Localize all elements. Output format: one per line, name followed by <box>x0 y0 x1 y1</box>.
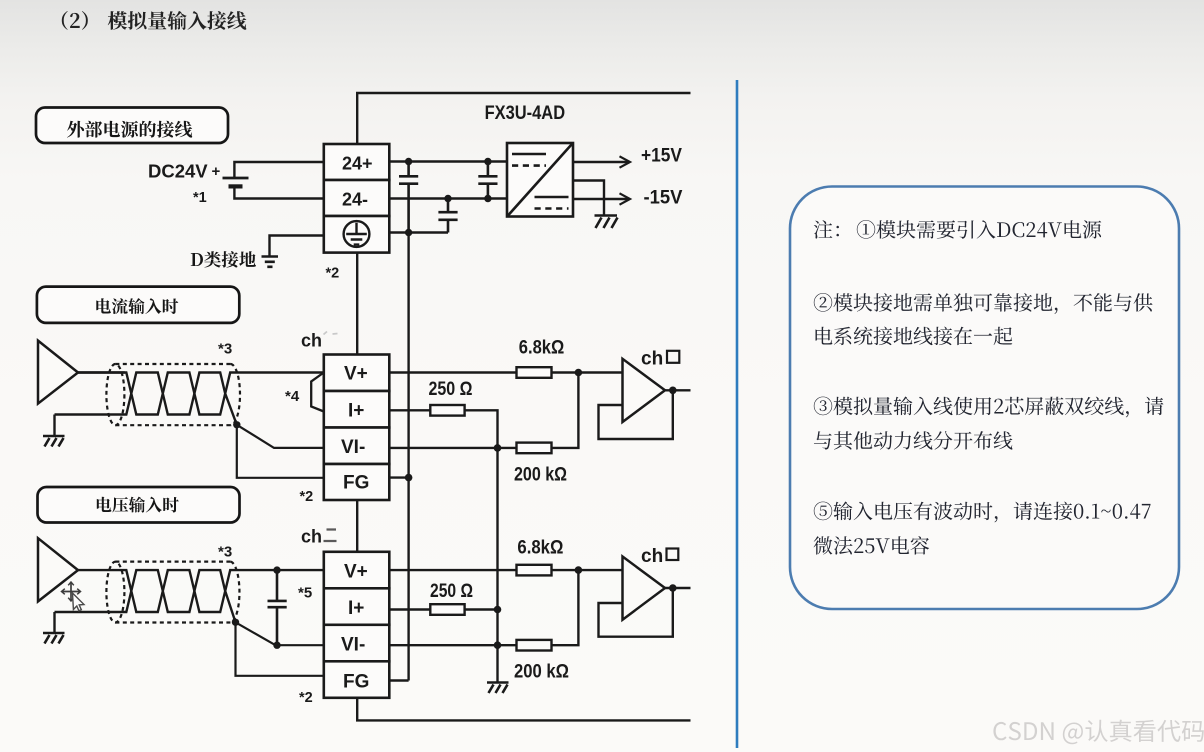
svg-text:250 Ω: 250 Ω <box>429 379 473 400</box>
wire FG ch2 to bottom rail <box>357 698 690 721</box>
node earth row/rail <box>405 229 412 236</box>
text DC24V + <box>148 102 683 282</box>
shield oval ch2 <box>106 562 239 623</box>
node R5/rail ch2 <box>494 606 502 614</box>
note line 6 <box>814 502 1151 523</box>
terminal V+ ch2 <box>324 552 390 589</box>
wire 24+ row to converter <box>389 160 507 162</box>
svg-text:*1: *1 <box>193 190 207 206</box>
title （2）模拟量输入接线 <box>62 11 88 30</box>
wire shield to FG ch1 <box>237 425 324 478</box>
wire pair B to ground ch2 <box>53 612 55 633</box>
wire R6 to node ch2 <box>552 570 579 645</box>
node C4/V+ ch2 <box>273 566 280 573</box>
shield oval ch1 <box>106 364 240 425</box>
wire -15V output <box>573 198 629 200</box>
chassis ground (sensor ch1) <box>43 436 65 447</box>
svg-text:*2: *2 <box>300 489 314 505</box>
note line 7 <box>814 536 930 555</box>
node 24-/C2 <box>484 195 491 202</box>
capacitor C1 <box>399 162 418 233</box>
svg-text:V+: V+ <box>344 364 368 385</box>
label box 外部电源的接线 <box>36 108 228 144</box>
feedback loop A2 <box>599 588 673 637</box>
svg-text:+15V: +15V <box>641 145 682 167</box>
chassis ground (sensor ch2) <box>43 633 65 644</box>
resistor R1 6.8k ch1 <box>517 367 552 378</box>
protective earth circle symbol <box>344 221 370 247</box>
jumper V+/I+ (*4) <box>311 373 324 412</box>
text 电流输入时 <box>96 298 178 314</box>
svg-text:I+: I+ <box>348 598 364 619</box>
wire converter to chassis ground <box>573 181 604 216</box>
svg-text:-15V: -15V <box>644 187 683 209</box>
wire op-amp A1 output <box>665 389 691 391</box>
wire 24- row to converter <box>389 197 507 199</box>
svg-text:*3: *3 <box>218 341 232 358</box>
wire FG ch1 to rail <box>389 476 408 478</box>
note line 3 <box>816 327 1013 346</box>
note line 1 <box>814 220 839 238</box>
wire top rail <box>357 93 690 144</box>
sensor source ch2 <box>38 538 78 601</box>
terminal 24+ <box>324 144 390 180</box>
wire strip ch1 to ch2 <box>356 500 358 552</box>
svg-text:FG: FG <box>343 672 369 693</box>
svg-text:FX3U-4AD: FX3U-4AD <box>485 102 565 124</box>
wire op-amp A2 output <box>665 587 691 589</box>
svg-text:200 kΩ: 200 kΩ <box>514 662 569 683</box>
watermark CSDN <box>993 720 1204 745</box>
text D类接地 <box>191 251 256 268</box>
chassis ground (converter) <box>595 216 618 229</box>
mouse cursor (move) <box>62 582 81 601</box>
node FG rail ch1 <box>405 474 413 482</box>
svg-text:250 Ω: 250 Ω <box>430 581 473 602</box>
svg-text:200 kΩ: 200 kΩ <box>514 465 567 486</box>
label box 电压输入时 <box>38 487 240 523</box>
node R2/VI- ch1 <box>494 444 502 452</box>
wire R3 to node ch1 <box>552 373 579 448</box>
terminal earth cell <box>324 216 390 253</box>
wire +15V output <box>573 161 629 163</box>
terminal VI- ch1 <box>324 428 390 465</box>
chassis ground (VI- rail) <box>487 683 509 694</box>
svg-text:VI-: VI- <box>341 635 365 656</box>
capacitor C4 (input filter ch2) <box>268 570 287 645</box>
battery B1 plates <box>223 177 249 180</box>
op-amp A1 <box>599 359 691 439</box>
twisted pair ch1 wire B <box>55 373 237 425</box>
svg-text:*3: *3 <box>218 544 232 561</box>
twisted pair ch2 wire B <box>55 570 236 622</box>
node 24-/C3 <box>444 195 451 202</box>
twisted pair ch2 wire A <box>78 570 324 612</box>
ch2 channel marks 二 <box>324 530 337 542</box>
svg-text:VI-: VI- <box>341 437 365 458</box>
svg-text:V+: V+ <box>344 562 368 583</box>
VI- common rail down <box>496 448 498 683</box>
svg-text:24-: 24- <box>342 190 368 210</box>
node R4/R6 ch2 <box>575 566 583 574</box>
svg-text:ch: ch <box>301 331 322 351</box>
op-amp A2 <box>599 557 691 637</box>
wire V+ ch1 to R1 <box>389 371 516 373</box>
terminal I+ ch1 <box>324 391 390 428</box>
ch square box ch2 <box>667 549 679 561</box>
terminal FG ch1 <box>324 464 390 500</box>
wire battery- to 24- <box>234 186 323 198</box>
wire V+ ch2 to R4 <box>389 569 516 571</box>
terminal strip 1 box <box>324 144 390 253</box>
svg-text:ch: ch <box>641 546 663 567</box>
wire sensor apex to pair ch1 <box>78 371 125 373</box>
text 电压输入时 <box>97 497 179 513</box>
blue divider line <box>736 80 739 748</box>
wire VI- ch1 row <box>389 447 516 449</box>
resistor R3 200k ch1 <box>517 443 552 454</box>
wire shield to VI- ch1 <box>237 425 324 448</box>
mouse cursor (pointer) <box>73 593 85 611</box>
wire shield to VI- ch2 <box>236 622 324 645</box>
terminal VI- ch2 <box>324 625 390 662</box>
node 24+/C2 <box>484 158 491 165</box>
wire FG ch2 to rail <box>389 679 408 681</box>
resistor R6 200k ch2 <box>517 640 552 651</box>
svg-text:I+: I+ <box>348 401 364 422</box>
arrowhead -15V <box>620 193 631 204</box>
svg-text:*2: *2 <box>326 266 340 282</box>
ch square box ch1 <box>667 351 679 363</box>
wire I+ ch1 to R2 <box>389 409 430 411</box>
wire D-class earth to terminal <box>270 236 324 257</box>
note line 2 <box>814 293 1153 314</box>
capacitor C2 <box>478 162 497 199</box>
svg-text:6.8kΩ: 6.8kΩ <box>517 538 563 559</box>
node shield/pair ch2 <box>232 619 239 626</box>
wire pair B to ground ch1 <box>53 415 55 437</box>
node output A1 <box>669 387 677 395</box>
terminal strip ch1 <box>324 355 390 501</box>
svg-text:FG: FG <box>343 473 369 494</box>
earth symbol (D-class ground) <box>262 257 279 267</box>
note line 5 <box>814 431 1013 450</box>
node VI-/rail ch2 <box>494 641 502 649</box>
wire R5 to rail ch2 <box>465 608 498 610</box>
terminal V+ ch1 <box>324 355 390 392</box>
svg-text:+: + <box>212 163 221 180</box>
node 24+/C1 <box>405 158 412 165</box>
label box 电流输入时 <box>37 287 239 323</box>
resistor R4 6.8k ch2 <box>517 565 552 576</box>
wire battery+ to 24+ <box>234 162 323 178</box>
node output A2 <box>669 584 677 592</box>
note panel rounded box <box>790 187 1179 610</box>
svg-text:*2: *2 <box>299 690 313 706</box>
svg-text:ch: ch <box>641 349 663 370</box>
wire R2 to VI- node ch1 <box>465 410 498 448</box>
dc/dc converter U1 <box>507 143 573 217</box>
terminal I+ ch2 <box>324 588 390 625</box>
terminal 24- <box>324 180 390 216</box>
terminal FG ch2 <box>324 661 390 698</box>
sensor source ch1 <box>38 341 78 404</box>
arrowhead +15V <box>620 156 631 167</box>
text 外部电源的接线 <box>67 121 192 138</box>
svg-text:DC24V: DC24V <box>148 161 208 182</box>
svg-text:6.8kΩ: 6.8kΩ <box>519 338 565 359</box>
wire I+ ch2 to R5 <box>389 608 430 610</box>
feedback loop A1 <box>599 390 673 439</box>
node shield/pair ch1 <box>233 421 240 428</box>
resistor R5 250 ch2 <box>430 604 464 615</box>
twisted pair ch1 wire A <box>78 373 324 415</box>
wire R1 to node ch1 <box>552 371 623 373</box>
svg-text:*4: *4 <box>285 388 300 405</box>
svg-text:24+: 24+ <box>342 154 373 174</box>
terminal strip ch2 <box>324 552 390 698</box>
faint ch1 channel marks <box>324 332 338 335</box>
FG shield rail (vertical) <box>407 233 409 681</box>
wire earth row <box>389 231 448 233</box>
wire shield to FG ch2 <box>236 622 324 676</box>
resistor R2 250 ch1 <box>430 405 464 416</box>
node C4/VI- ch2 <box>273 642 280 649</box>
svg-text:ch: ch <box>301 527 322 547</box>
wire R4 to node ch2 <box>552 569 623 571</box>
note line 4 <box>814 397 1164 418</box>
node R1/R3 ch1 <box>575 369 583 377</box>
svg-text:*5: *5 <box>298 585 312 602</box>
wire VI- ch2 row <box>389 644 516 646</box>
wire strip1 to ch1 strip <box>356 253 358 355</box>
capacitor C3 <box>438 199 457 233</box>
